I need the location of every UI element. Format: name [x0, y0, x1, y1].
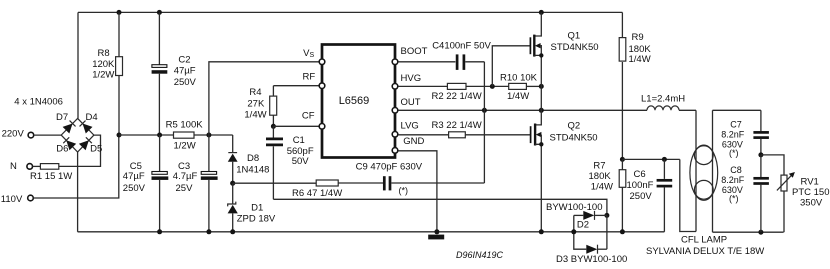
pin CF — [319, 124, 325, 130]
svg-text:100nF: 100nF — [627, 180, 654, 191]
svg-text:47µF: 47µF — [123, 171, 145, 182]
resistor R10 — [509, 83, 527, 89]
CFL lamp — [695, 110, 697, 231]
wire pump riser to OUT node and C4 — [483, 62, 485, 183]
node D8 anode / D1 / R6 line — [230, 181, 235, 186]
capacitor C7 — [760, 110, 762, 131]
svg-text:GND: GND — [403, 136, 424, 147]
capacitor C9 — [383, 176, 386, 190]
resistor R9 — [621, 12, 623, 37]
svg-text:4.7µF: 4.7µF — [173, 171, 198, 182]
svg-text:25V: 25V — [176, 183, 194, 194]
wire left rail drop to bridge top — [77, 12, 79, 118]
svg-text:C4100nF 50V: C4100nF 50V — [432, 40, 491, 51]
resistor R1 — [40, 164, 58, 170]
svg-text:120K: 120K — [92, 59, 115, 70]
svg-text:D4: D4 — [86, 112, 98, 123]
wire CF pin — [273, 125, 319, 127]
wire GND to ground — [398, 151, 437, 232]
svg-text:250V: 250V — [630, 191, 653, 202]
node R4 / C1 / CF — [271, 124, 276, 129]
diode D7 — [63, 120, 76, 133]
resistor R6 — [316, 180, 338, 186]
svg-text:(*): (*) — [729, 148, 739, 158]
svg-text:R3 22 1/4W: R3 22 1/4W — [432, 120, 482, 131]
wire Q1 gate riser — [492, 46, 530, 87]
capacitor C1 — [272, 126, 274, 137]
svg-text:350V: 350V — [800, 198, 823, 209]
bridge rectifier diamond — [61, 118, 94, 152]
svg-text:R6 47 1/4W: R6 47 1/4W — [292, 188, 342, 199]
svg-text:50V: 50V — [292, 156, 310, 167]
svg-text:SYLVANIA DELUX T/E 18W: SYLVANIA DELUX T/E 18W — [646, 246, 764, 257]
svg-text:D8: D8 — [247, 153, 259, 164]
svg-text:R1 15 1W: R1 15 1W — [30, 171, 72, 182]
diode D6 — [63, 137, 76, 150]
svg-text:1/4W: 1/4W — [244, 110, 266, 121]
pin BOOT — [392, 59, 398, 65]
svg-text:1/2W: 1/2W — [174, 140, 196, 151]
svg-text:1/4W: 1/4W — [507, 91, 529, 102]
wire C1 pump line to D2 D3 — [273, 199, 607, 215]
wire LVG to R3 — [398, 134, 448, 136]
wire lamp top-right to C7 — [713, 109, 761, 111]
svg-text:D2: D2 — [577, 219, 589, 230]
wire R5 supply line — [119, 134, 174, 136]
svg-text:CFL LAMP: CFL LAMP — [681, 235, 727, 246]
wire BOOT to C4 — [398, 61, 455, 63]
pin LVG — [392, 132, 398, 138]
wire divider node to lamp return — [622, 158, 679, 160]
svg-text:47µF: 47µF — [174, 66, 196, 77]
svg-text:R2 22 1/4W: R2 22 1/4W — [432, 91, 482, 102]
pin Vs — [319, 59, 325, 65]
svg-text:C6: C6 — [634, 169, 646, 180]
pin GND — [392, 148, 398, 154]
pin RF — [319, 83, 325, 89]
svg-text:PTC 150: PTC 150 — [792, 187, 830, 198]
capacitor C4 — [456, 54, 459, 70]
wire R4 top to RF pin — [273, 85, 319, 87]
svg-text:STD4NK50: STD4NK50 — [551, 42, 599, 53]
capacitor C5 — [159, 135, 161, 171]
capacitor C6 — [663, 159, 665, 179]
node top rail junction R8 — [117, 10, 122, 15]
node top rail junction C2 — [157, 10, 162, 15]
capacitor C3 — [208, 135, 210, 171]
svg-text:C2: C2 — [178, 54, 190, 65]
svg-text:N: N — [10, 161, 17, 172]
svg-text:R10 10K: R10 10K — [500, 73, 538, 84]
IC U1 L6569 — [322, 45, 395, 158]
diode D2 — [574, 214, 584, 216]
wire top positive rail — [78, 11, 622, 13]
node C3 / Vs riser — [206, 133, 211, 138]
svg-text:220V: 220V — [2, 128, 25, 139]
svg-text:LVG: LVG — [401, 121, 419, 132]
node C6 top — [662, 157, 667, 162]
svg-text:4 x 1N4006: 4 x 1N4006 — [14, 97, 63, 108]
svg-text:R4: R4 — [249, 87, 261, 98]
resistor R2 — [447, 83, 466, 89]
svg-text:8.2nF: 8.2nF — [721, 130, 745, 140]
svg-text:8.2nF: 8.2nF — [721, 175, 745, 185]
svg-text:ZPD 18V: ZPD 18V — [237, 214, 276, 225]
svg-text:250V: 250V — [123, 183, 146, 194]
svg-text:1/4W: 1/4W — [591, 181, 613, 192]
svg-text:1/2W: 1/2W — [92, 70, 114, 81]
wire lamp bottom-left return — [680, 159, 696, 231]
capacitor C8 — [760, 155, 762, 177]
svg-text:D7: D7 — [56, 112, 68, 123]
wire HVG to R2 — [398, 85, 447, 87]
resistor R8 — [118, 12, 120, 56]
svg-text:Q1: Q1 — [568, 30, 581, 41]
svg-text:C9 470pF 630V: C9 470pF 630V — [356, 161, 423, 172]
diode D5 — [79, 137, 92, 150]
thermistor RV1 — [761, 155, 784, 175]
node lamp return / divider — [620, 157, 625, 162]
resistor R3 — [449, 132, 466, 138]
transistor Q1 — [534, 12, 541, 36]
wire lamp bottom-right to C8 RV1 — [713, 231, 784, 233]
node C7 C8 RV1 — [758, 152, 763, 157]
wire 220V to bridge — [34, 134, 62, 136]
capacitor C2 — [158, 12, 160, 64]
svg-text:R5 100K: R5 100K — [166, 119, 204, 130]
svg-text:STD4NK50: STD4NK50 — [550, 133, 598, 144]
svg-text:D6: D6 — [56, 144, 68, 155]
svg-text:C1: C1 — [293, 135, 305, 146]
wire charge pump line R6 C9 — [233, 182, 317, 184]
pin HVG — [392, 84, 398, 90]
svg-text:27K: 27K — [247, 99, 265, 110]
wire bottom ground rail — [78, 231, 665, 233]
resistor R4 — [272, 86, 274, 96]
svg-text:R8: R8 — [98, 48, 110, 59]
svg-text:110V: 110V — [1, 194, 23, 205]
wire N to R1 — [33, 165, 41, 167]
svg-text:D5: D5 — [90, 144, 102, 155]
svg-text:1/4W: 1/4W — [629, 54, 651, 65]
svg-text:D3 BYW100-100: D3 BYW100-100 — [556, 254, 627, 265]
svg-text:C8: C8 — [730, 165, 742, 175]
svg-text:250V: 250V — [174, 77, 197, 88]
resistor R7 — [621, 159, 623, 169]
node top rail junction Q1 drain — [539, 10, 544, 15]
wire R1 to bridge right vertex — [59, 135, 101, 166]
svg-text:RV1: RV1 — [801, 176, 819, 187]
svg-text:BOOT: BOOT — [401, 46, 428, 57]
wire 110V to R8 node — [33, 135, 119, 198]
resistor R5 — [174, 132, 195, 138]
svg-text:(*): (*) — [729, 194, 739, 204]
diode D4 — [79, 120, 92, 133]
node R2 / R10 / gate riser — [490, 84, 495, 89]
svg-text:(*): (*) — [399, 186, 409, 196]
svg-text:1N4148: 1N4148 — [236, 165, 269, 176]
node C5 top — [157, 133, 162, 138]
svg-text:L1=2.4mH: L1=2.4mH — [641, 94, 685, 105]
svg-text:R9: R9 — [632, 32, 644, 43]
ground — [428, 235, 444, 240]
svg-text:D96IN419C: D96IN419C — [456, 250, 504, 260]
wire bridge bottom to ground rail — [77, 152, 79, 232]
wire OUT line — [398, 109, 647, 111]
svg-text:HVG: HVG — [401, 73, 422, 84]
wire Vs supply riser — [209, 62, 319, 135]
svg-text:RF: RF — [303, 72, 316, 83]
svg-text:OUT: OUT — [401, 97, 421, 108]
svg-text:D1: D1 — [251, 203, 263, 214]
node D2 cathode — [604, 213, 609, 218]
svg-text:Q2: Q2 — [568, 121, 581, 132]
svg-text:L6569: L6569 — [339, 95, 370, 107]
node R8 bottom / 110V / R5 line — [117, 133, 122, 138]
transistor Q2 — [535, 110, 541, 125]
diode D1 zener — [232, 183, 234, 204]
diode D3 — [574, 215, 587, 249]
svg-text:C7: C7 — [730, 120, 742, 130]
svg-text:CF: CF — [302, 111, 315, 122]
diode D8 — [232, 135, 234, 153]
pin OUT — [392, 108, 398, 114]
inductor L1 — [647, 106, 679, 110]
svg-text:R7: R7 — [593, 160, 605, 171]
